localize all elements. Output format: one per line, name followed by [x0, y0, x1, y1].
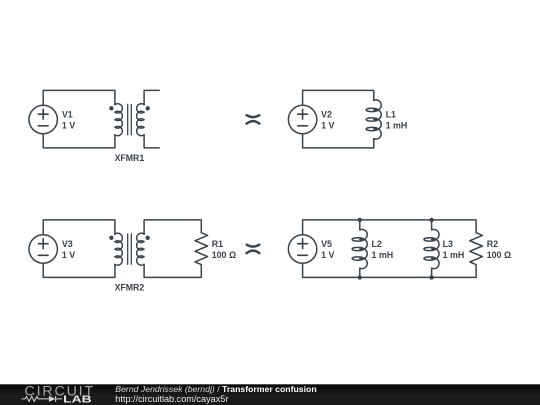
svg-text:100 Ω: 100 Ω: [212, 250, 236, 260]
junction node L3 bottom: [429, 275, 433, 279]
svg-text:R1: R1: [212, 239, 223, 249]
svg-text:1 mH: 1 mH: [443, 250, 465, 260]
junction node L2 bottom: [358, 275, 362, 279]
logo wire left: [22, 396, 63, 402]
XFMR2 core: [128, 234, 132, 264]
transformer XFMR2 secondary winding: [137, 233, 144, 265]
wire XFMR1 secondary bottom stub: [144, 135, 159, 148]
svg-text:XFMR2: XFMR2: [115, 283, 145, 293]
wire V3 to XFMR2 bottom: [43, 263, 115, 277]
svg-text:L2: L2: [372, 239, 382, 249]
wire V1 to XFMR1 bottom: [43, 134, 115, 148]
wire XFMR2 secondary to R1 top: [144, 220, 201, 234]
svg-text:LAB: LAB: [63, 395, 92, 405]
svg-text:100 Ω: 100 Ω: [487, 250, 511, 260]
resistor R1: [195, 233, 208, 265]
inductor L3: [424, 220, 439, 278]
svg-text:R2: R2: [487, 239, 498, 249]
svg-text:V1: V1: [62, 110, 73, 120]
voltage source V2: [288, 105, 316, 133]
svg-text:1 V: 1 V: [62, 120, 75, 130]
svg-text:Bernd Jendrissek (berndj) / Tr: Bernd Jendrissek (berndj) / Transformer …: [115, 384, 316, 394]
equivalence symbol bottom: [247, 245, 260, 254]
inductor L1: [366, 100, 381, 139]
svg-text:L1: L1: [386, 110, 396, 120]
svg-text:V2: V2: [321, 110, 332, 120]
voltage source V1: [29, 105, 57, 133]
wire V2 to L1 bottom: [303, 134, 374, 148]
voltage source V5: [288, 235, 316, 263]
transformer XFMR2 primary winding: [115, 233, 122, 265]
wire V3 to XFMR2 top: [43, 220, 115, 235]
svg-text:1 V: 1 V: [62, 250, 75, 260]
equivalence symbol top: [247, 115, 260, 124]
wire XFMR2 secondary to R1 bottom: [144, 264, 201, 277]
svg-text:1 V: 1 V: [321, 120, 334, 130]
wire V1 to XFMR1 top: [43, 90, 115, 105]
svg-text:http://circuitlab.com/cayax5r: http://circuitlab.com/cayax5r: [115, 394, 228, 404]
wire top rail V5 to R2: [303, 220, 477, 235]
inductor L2: [352, 220, 367, 278]
junction node L3 top: [429, 218, 433, 222]
junction node L2 top: [358, 218, 362, 222]
svg-text:V3: V3: [62, 239, 73, 249]
logo resistor zigzag: [25, 396, 44, 401]
transformer XFMR1 primary winding: [115, 104, 122, 136]
svg-text:XFMR1: XFMR1: [115, 153, 145, 163]
XFMR2 secondary phase dot: [146, 236, 150, 240]
XFMR1 primary phase dot: [109, 106, 113, 110]
voltage source V3: [29, 235, 57, 263]
XFMR1 core: [128, 104, 132, 134]
logo diode: [49, 396, 56, 402]
wire XFMR1 secondary top stub: [144, 90, 159, 104]
svg-text:1 V: 1 V: [321, 250, 334, 260]
wire bottom rail V5 to R2: [303, 263, 477, 277]
svg-text:L3: L3: [443, 239, 453, 249]
wire V2 to L1 top: [303, 90, 374, 105]
transformer XFMR1 secondary winding: [137, 104, 144, 136]
resistor R2: [470, 233, 483, 265]
svg-text:1 mH: 1 mH: [386, 120, 408, 130]
XFMR2 primary phase dot: [109, 236, 113, 240]
svg-text:1 mH: 1 mH: [372, 250, 394, 260]
svg-text:V5: V5: [321, 239, 332, 249]
XFMR1 secondary phase dot: [146, 106, 150, 110]
